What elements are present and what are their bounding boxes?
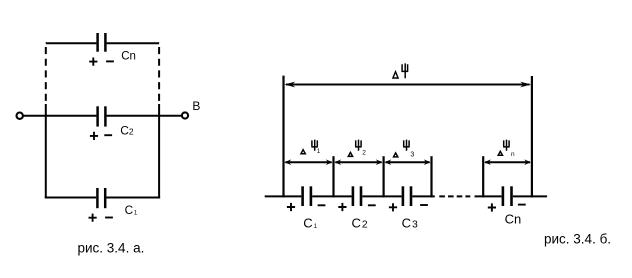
svg-text:C2: C2 <box>352 215 368 230</box>
label + of C2 (left fig) <box>90 132 98 140</box>
capacitor C1 plates <box>97 188 105 208</box>
dimension arrow Δφ2 <box>334 159 382 165</box>
dimension extension bar far right <box>531 76 533 197</box>
label − of C2 (series) <box>368 204 376 206</box>
svg-text:C1: C1 <box>303 215 317 230</box>
label + of C1 (left fig) <box>89 214 97 222</box>
capacitor Cn plates (series) <box>503 186 512 206</box>
terminal node left <box>17 113 23 119</box>
label Δφn <box>498 140 515 158</box>
wire: middle horizontal left segment <box>23 115 96 117</box>
wire: bottom horizontal <box>45 197 160 199</box>
label Δφ2 <box>348 140 366 157</box>
svg-text:Cn: Cn <box>505 211 522 226</box>
label − of Cn (left fig) <box>106 60 114 62</box>
wire: middle horizontal right segment <box>107 115 182 117</box>
dimension arrow total Δφ <box>284 82 531 88</box>
label Δφ1 <box>301 140 321 155</box>
label + of C2 (series) <box>338 203 346 211</box>
capacitor Cn plates <box>98 33 106 52</box>
wire: right vertical solid segment <box>158 104 160 198</box>
label Δφ3 <box>394 140 415 159</box>
label + of Cn (left fig) <box>89 58 97 66</box>
svg-text:Cn: Cn <box>121 51 136 63</box>
svg-text:C1: C1 <box>125 203 138 217</box>
svg-text:рис. 3.4. б.: рис. 3.4. б. <box>544 232 611 247</box>
svg-text:C2: C2 <box>120 124 134 138</box>
wire: top horizontal <box>46 42 159 44</box>
svg-text:1: 1 <box>317 149 321 155</box>
label + of Cn (series) <box>488 203 496 211</box>
label − of Cn (series) <box>518 204 526 206</box>
dimension extension bar between C1 and C2 <box>332 156 334 197</box>
wire: left vertical solid segment <box>45 104 47 198</box>
wire: main series chain horizontal <box>265 195 547 197</box>
svg-text:B: B <box>192 99 200 113</box>
capacitor C3 plates (series) <box>403 186 411 206</box>
capacitor C1 plates (series) <box>303 186 311 206</box>
label − of C2 (left fig) <box>104 134 112 136</box>
dimension extension bar right of C3 <box>430 156 432 197</box>
dimension arrow Δφ3 <box>385 159 431 165</box>
dimension arrow Δφ1 <box>284 159 332 165</box>
label Δφ (total) <box>393 63 408 78</box>
capacitor C2 plates <box>98 106 106 126</box>
label + of C1 (series) <box>287 203 295 211</box>
terminal node B <box>182 112 188 118</box>
label − of C1 (series) <box>318 204 326 206</box>
wire: right vertical dashed segment <box>158 42 160 101</box>
capacitor C2 plates (series) <box>353 186 361 206</box>
svg-text:C3: C3 <box>402 215 418 230</box>
wire: left vertical dashed segment <box>45 42 47 101</box>
dimension arrow Δφn <box>484 159 531 165</box>
svg-text:2: 2 <box>362 150 366 157</box>
dimension extension bar between C2 and C3 <box>383 156 385 197</box>
label − of C1 (left fig) <box>105 217 113 219</box>
svg-text:n: n <box>511 151 515 158</box>
label − of C3 (series) <box>420 204 428 206</box>
dimension extension bar left of Cn <box>482 156 484 197</box>
wire: dashed continuation between C3 and Cn <box>439 195 470 197</box>
dimension extension bar far left <box>282 76 284 198</box>
label + of C3 (series) <box>389 203 397 211</box>
svg-text:рис. 3.4. а.: рис. 3.4. а. <box>78 240 145 255</box>
svg-text:3: 3 <box>410 152 414 159</box>
